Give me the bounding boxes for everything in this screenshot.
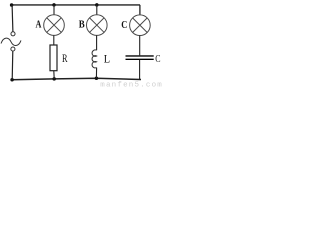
wire: capacitor to bottom bus xyxy=(139,60,141,80)
wire: lamp B to inductor xyxy=(96,35,98,50)
wire: stub top of lamp A xyxy=(53,5,55,15)
node: top junction above lamp B xyxy=(95,3,99,7)
lamp A cross xyxy=(47,18,61,32)
capacitor C bottom plate xyxy=(126,59,154,60)
AC source terminal (bottom circle) xyxy=(11,47,15,51)
lamp C circle xyxy=(130,15,151,36)
lamp C cross xyxy=(133,18,147,32)
svg-text:A: A xyxy=(35,20,41,31)
AC source terminal (top circle) xyxy=(11,32,15,36)
inductor L coil xyxy=(92,50,97,68)
svg-text:C: C xyxy=(121,20,127,31)
lamp A circle xyxy=(44,15,65,36)
resistor R body xyxy=(50,45,57,71)
AC source tilde xyxy=(1,38,21,45)
wire: right vertical drop to lamp C xyxy=(139,5,141,15)
node: top-left junction xyxy=(10,3,14,7)
wire: bottom horizontal bus xyxy=(12,78,141,80)
wire: top horizontal bus xyxy=(12,4,141,6)
wire: lamp C to capacitor xyxy=(139,36,141,56)
wire: lamp A to resistor xyxy=(53,35,55,45)
wire: left vertical from top to source xyxy=(11,5,14,32)
lamp B cross xyxy=(90,18,104,32)
node: bottom-left junction xyxy=(10,78,14,82)
wire: left vertical from source to bottom xyxy=(11,51,14,80)
svg-text:C: C xyxy=(155,53,160,66)
svg-text:L: L xyxy=(104,53,111,66)
wire: inductor to bottom bus xyxy=(95,68,97,79)
svg-text:manfen5.com: manfen5.com xyxy=(100,82,163,90)
wire: stub top of lamp B xyxy=(96,5,98,15)
svg-text:R: R xyxy=(62,53,68,66)
node: bottom junction below inductor xyxy=(95,76,99,80)
lamp B circle xyxy=(87,15,108,36)
node: bottom junction below resistor xyxy=(52,77,56,81)
svg-text:B: B xyxy=(79,19,85,31)
wire: resistor to bottom bus xyxy=(53,71,55,79)
node: top junction above lamp A xyxy=(52,3,56,7)
capacitor C top plate xyxy=(126,55,154,56)
